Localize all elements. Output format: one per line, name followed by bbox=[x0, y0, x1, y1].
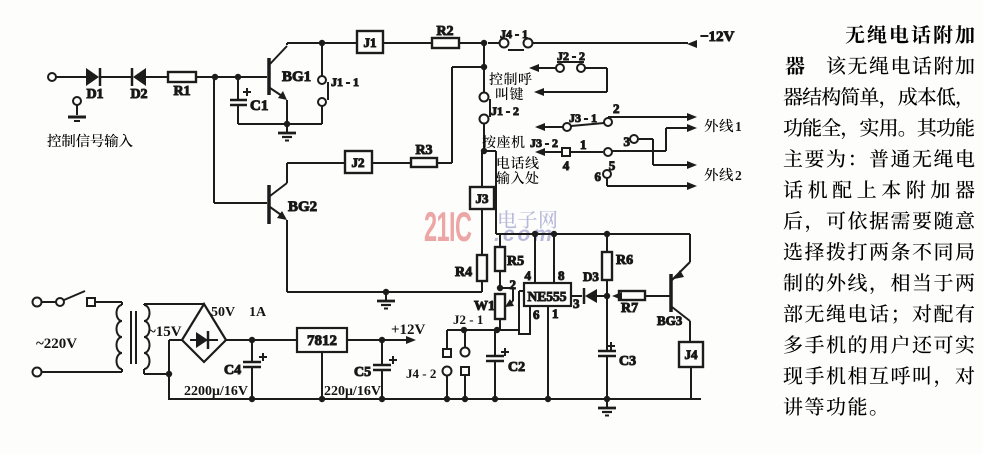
wire BG1 collector up bbox=[286, 43, 288, 45]
svg-text:BG3: BG3 bbox=[657, 313, 683, 328]
svg-text:BG1: BG1 bbox=[282, 69, 311, 85]
switch J3-1 bbox=[535, 101, 697, 131]
svg-text:1: 1 bbox=[580, 137, 587, 152]
wire J3 node right bbox=[484, 151, 496, 234]
svg-text:D1: D1 bbox=[86, 87, 103, 102]
resistor R2 bbox=[432, 24, 459, 48]
relay contact J2-1 left bbox=[443, 330, 452, 399]
wire node down bbox=[481, 43, 487, 70]
svg-text:C3: C3 bbox=[619, 354, 636, 369]
transformer B bbox=[117, 302, 150, 374]
svg-text:J3 - 1: J3 - 1 bbox=[569, 111, 597, 125]
svg-text:J2: J2 bbox=[352, 155, 365, 170]
svg-text:21IC: 21IC bbox=[424, 204, 472, 251]
wire R3 right bbox=[437, 162, 452, 164]
label outside line 2 bbox=[705, 168, 734, 181]
diode D1 bbox=[86, 68, 104, 102]
relay contact J1-1 bbox=[318, 43, 359, 124]
wire rail A bbox=[447, 327, 519, 333]
wire BG2 emitter rail bbox=[287, 289, 482, 295]
svg-text:8: 8 bbox=[558, 268, 565, 283]
svg-text:+12V: +12V bbox=[391, 322, 426, 338]
watermark dianziwang bbox=[499, 210, 556, 229]
AC terminal top bbox=[33, 298, 42, 307]
wire R1 node to BG2 base bbox=[214, 77, 267, 203]
potentiometer W1 bbox=[474, 288, 514, 330]
wire J2 to R3 bbox=[372, 162, 411, 164]
wire R2 to node bbox=[459, 40, 487, 46]
pin 2 bbox=[510, 277, 525, 330]
svg-text:2: 2 bbox=[613, 101, 620, 116]
capacitor C3 bbox=[598, 296, 636, 399]
wire D1 to D2 bbox=[100, 76, 132, 78]
bridge rectifier bbox=[182, 304, 226, 362]
resistor R1 bbox=[168, 72, 196, 99]
label +12V bbox=[391, 322, 426, 338]
svg-text:J2 - 2: J2 - 2 bbox=[557, 49, 585, 63]
svg-text:C4: C4 bbox=[224, 363, 241, 378]
wire bottom rail bbox=[168, 396, 701, 402]
label 2200u/16V bbox=[184, 384, 248, 399]
svg-text:1: 1 bbox=[552, 306, 559, 321]
transistor BG3 bbox=[657, 234, 690, 342]
pin 3 bbox=[571, 296, 582, 311]
svg-text:J3: J3 bbox=[476, 191, 490, 206]
wire secondary bottom bbox=[144, 340, 182, 399]
label control call key bbox=[489, 72, 531, 85]
relay contact J4-1 bbox=[488, 27, 688, 50]
svg-text:4: 4 bbox=[563, 158, 570, 173]
relay coil J2 bbox=[345, 151, 372, 173]
wire node to R3 riser bbox=[452, 67, 484, 163]
resistor R3 bbox=[411, 143, 437, 167]
wire BG1 collector rail bbox=[287, 40, 357, 46]
switch contact 5 bbox=[604, 124, 697, 173]
watermark 21IC bbox=[424, 204, 472, 251]
wire bridge to 7812 bbox=[226, 337, 297, 343]
label phone line input bbox=[498, 156, 539, 169]
capacitor C2 bbox=[486, 330, 525, 399]
wire secondary top bbox=[144, 303, 204, 305]
capacitor C1 bbox=[230, 78, 268, 124]
wire J1 to R2 bbox=[383, 42, 432, 44]
ground G1 bbox=[278, 124, 296, 141]
svg-text:R1: R1 bbox=[173, 84, 190, 99]
svg-text:J4 - 2: J4 - 2 bbox=[406, 366, 436, 381]
svg-text:R6: R6 bbox=[616, 253, 633, 268]
wire BG2 emitter bbox=[286, 220, 288, 292]
wire top rail 555 bbox=[496, 231, 690, 237]
regulator 7812 bbox=[297, 328, 347, 352]
svg-text:J4: J4 bbox=[685, 347, 699, 362]
svg-text:7812: 7812 bbox=[307, 333, 337, 349]
ground G2 bbox=[377, 292, 395, 309]
svg-text:R3: R3 bbox=[415, 143, 432, 158]
label control signal input bbox=[47, 134, 132, 148]
diode D3 bbox=[583, 269, 604, 304]
svg-text:3: 3 bbox=[573, 296, 580, 311]
relay contact J1-2 bbox=[480, 67, 520, 154]
svg-text:J1 - 2: J1 - 2 bbox=[491, 104, 519, 118]
wire BG1 emitter bbox=[286, 100, 288, 124]
wire 7812 ground bbox=[321, 352, 323, 399]
wire emitter rail bbox=[238, 121, 322, 127]
label J4-2 bbox=[406, 366, 436, 381]
svg-text:J2 - 1: J2 - 1 bbox=[453, 312, 483, 327]
relay coil J3 bbox=[470, 151, 494, 209]
svg-text:6: 6 bbox=[595, 169, 602, 184]
pin 4 bbox=[525, 234, 536, 283]
svg-text:2200μ/16V: 2200μ/16V bbox=[184, 384, 248, 399]
svg-text:~220V: ~220V bbox=[36, 336, 77, 352]
label press base set bbox=[482, 135, 524, 148]
svg-text:C5: C5 bbox=[354, 365, 371, 380]
label 220u/16V bbox=[324, 384, 381, 399]
svg-text:J1 - 1: J1 - 1 bbox=[331, 75, 359, 89]
diode D2 bbox=[130, 68, 147, 102]
switch contact 6 bbox=[595, 169, 698, 190]
resistor R5 bbox=[495, 234, 524, 291]
watermark .com bbox=[494, 223, 555, 246]
svg-text:6: 6 bbox=[533, 307, 540, 322]
resistor R7 bbox=[612, 291, 670, 316]
relay contact J4-2 right bbox=[461, 330, 470, 399]
switch J3-2 bbox=[530, 136, 603, 173]
pin 6 bbox=[519, 306, 540, 334]
svg-text:D3: D3 bbox=[583, 269, 599, 284]
svg-text:R5: R5 bbox=[507, 254, 524, 269]
svg-text:50V: 50V bbox=[211, 305, 235, 320]
svg-text:R4: R4 bbox=[455, 265, 472, 280]
label ~15V bbox=[148, 324, 182, 340]
svg-text:−12V: −12V bbox=[700, 29, 735, 45]
control signal terminal bbox=[68, 97, 86, 121]
svg-text:220μ/16V: 220μ/16V bbox=[324, 384, 381, 399]
wire 7812 out bbox=[347, 336, 416, 344]
svg-text:2: 2 bbox=[510, 277, 517, 292]
switch contact 3 bbox=[624, 134, 698, 169]
node D3-R6-R7-C3 bbox=[604, 293, 610, 299]
arrow to -12V bbox=[687, 40, 697, 48]
svg-text:2: 2 bbox=[735, 168, 742, 183]
pin 8 bbox=[554, 234, 565, 283]
svg-text:R2: R2 bbox=[436, 24, 453, 39]
node input terminal bbox=[48, 73, 56, 81]
svg-text:4: 4 bbox=[525, 268, 532, 283]
resistor R4 bbox=[455, 209, 487, 292]
label outside line 1 bbox=[705, 119, 734, 132]
wire D2 to R1 bbox=[146, 76, 168, 78]
svg-text:R7: R7 bbox=[621, 301, 638, 316]
svg-text:J1: J1 bbox=[364, 35, 377, 50]
label J2-1 bbox=[453, 312, 483, 327]
ground G3 bbox=[598, 399, 616, 416]
svg-text:C1: C1 bbox=[250, 98, 268, 114]
svg-text:BG2: BG2 bbox=[288, 199, 317, 215]
relay coil J1 bbox=[357, 31, 383, 53]
pin 1 bbox=[548, 306, 559, 399]
capacitor C5 bbox=[354, 340, 397, 399]
label ~220V bbox=[36, 336, 77, 352]
op-amp timer U1 NE555 bbox=[524, 283, 571, 306]
wire BG2 collector bbox=[287, 163, 345, 183]
resistor R6 bbox=[602, 234, 633, 296]
capacitor C4 bbox=[224, 340, 267, 399]
svg-text:1A: 1A bbox=[249, 305, 267, 320]
transistor BG1 bbox=[269, 46, 311, 100]
label -12V bbox=[700, 29, 735, 45]
svg-text:NE555: NE555 bbox=[527, 289, 566, 304]
AC terminal bottom bbox=[33, 368, 42, 377]
right column paragraph bbox=[784, 25, 975, 416]
svg-text:J3 - 2: J3 - 2 bbox=[530, 136, 558, 150]
wire J4 down bbox=[690, 367, 692, 399]
power switch bbox=[41, 291, 122, 306]
svg-text:D2: D2 bbox=[130, 87, 147, 102]
wire AC bottom bbox=[41, 371, 122, 373]
wire R1 to BG1 base bbox=[196, 74, 267, 80]
label 50V 1A bbox=[211, 305, 267, 320]
svg-text:1: 1 bbox=[735, 119, 742, 134]
svg-text:3: 3 bbox=[624, 134, 631, 149]
svg-text:C2: C2 bbox=[508, 360, 525, 375]
svg-text:J4 - 1: J4 - 1 bbox=[500, 27, 528, 41]
relay coil J4 bbox=[679, 342, 703, 367]
wire input to D1 bbox=[56, 76, 86, 78]
transistor BG2 bbox=[269, 183, 317, 224]
svg-text:~15V: ~15V bbox=[148, 324, 182, 340]
relay contact J2-2 bbox=[529, 49, 607, 96]
